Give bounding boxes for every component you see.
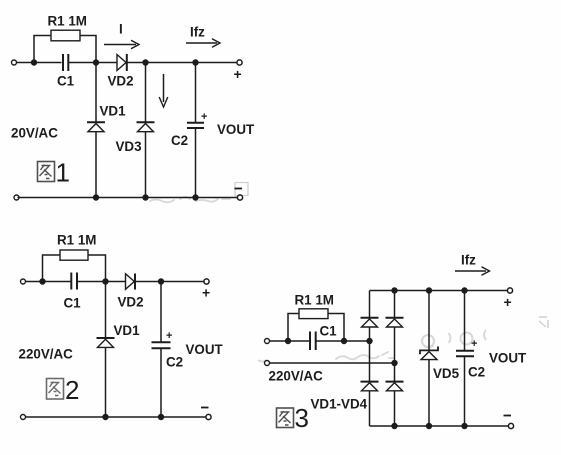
terminal: AC input top-left (circuit 1) — [12, 60, 17, 65]
svg-text:C1: C1 — [320, 324, 338, 339]
svg-text:C1: C1 — [64, 296, 82, 311]
node: R1/C1 left junction (circuit 2) — [39, 278, 45, 284]
wire: bridge right column middle — [394, 327, 396, 381]
wire: bridge right column upper — [394, 291, 396, 318]
svg-text:VOUT: VOUT — [489, 351, 527, 366]
current arrow Ifz (circuit 1) — [186, 39, 220, 48]
node: R1 right / VD1 branch junction (circuit 2) — [102, 278, 108, 284]
capacitor C2 (circuit 1) — [187, 123, 204, 128]
svg-text:VOUT: VOUT — [186, 342, 224, 357]
node: VD5 bottom junction — [426, 423, 432, 429]
current arrow I — [104, 40, 139, 49]
svg-text:C2: C2 — [166, 355, 183, 370]
resistor R1 (circuit 3) — [299, 309, 328, 319]
svg-text:Ifz: Ifz — [461, 253, 476, 268]
svg-text:VD1: VD1 — [100, 104, 127, 119]
figure label: 图2 — [47, 375, 80, 405]
svg-text:2: 2 — [65, 375, 79, 405]
wire: rail C1 to VD2 (circuit 2) — [77, 281, 126, 283]
svg-text:220V/AC: 220V/AC — [269, 369, 324, 384]
wire: R1 left lead (circuit 3) — [288, 314, 299, 342]
terminal: output + (circuit 3) — [507, 288, 512, 293]
capacitor C2 (circuit 3) — [456, 351, 474, 357]
node: C2 bottom junction (circuit 3) — [461, 423, 467, 429]
svg-text:C2: C2 — [468, 365, 485, 380]
node: bridge right column top junction — [391, 287, 397, 293]
wire: VD1 branch upper (circuit 2) — [105, 282, 107, 338]
wire: R1 left lead — [34, 36, 51, 63]
wire: VD1 branch lower — [95, 132, 97, 198]
svg-text:220V/AC: 220V/AC — [19, 347, 74, 362]
wire: C2 branch upper — [195, 63, 197, 123]
wire: top rail left segment (circuit 2) — [26, 281, 71, 283]
node: C2 top junction (circuit 3) — [461, 287, 467, 293]
node: C2 bottom junction — [192, 194, 198, 200]
diode VD1 (circuit 1) — [87, 122, 105, 131]
terminal: output + (circuit 2) — [204, 279, 209, 284]
svg-text:C2: C2 — [171, 133, 188, 148]
node: C2 bottom junction (circuit 2) — [158, 414, 164, 420]
node: bridge right column bottom junction — [391, 423, 397, 429]
svg-text:R1 1M: R1 1M — [57, 233, 96, 248]
svg-text:VD2: VD2 — [118, 295, 144, 310]
wire: C2 branch lower (circuit 3) — [464, 356, 466, 426]
diode VD4 (bridge bottom-right) — [386, 382, 404, 391]
resistor R1 — [51, 30, 80, 41]
svg-text:I: I — [119, 22, 123, 37]
node: VD3 branch junction — [142, 59, 148, 65]
current arrow Ifz (circuit 3) — [455, 267, 490, 276]
node: R1/C1 left junction (circuit 3) — [285, 338, 291, 344]
label: − polarity output (circuit 3) — [504, 415, 512, 417]
terminal: AC input lower (circuit 3) — [265, 361, 270, 366]
svg-text:+: + — [234, 66, 242, 82]
current arrow: downward through VD3 — [159, 74, 168, 107]
wire: bridge left column lower — [369, 391, 371, 426]
wire: rail VD2 to output terminal (circuit 2) — [135, 281, 204, 283]
node: VD1 bottom junction (circuit 2) — [102, 414, 108, 420]
wire: top rail left segment (terminal to C1) — [17, 62, 62, 64]
capacitor C2 (circuit 2) — [152, 342, 171, 348]
wire: bottom rail (circuit 3) — [370, 425, 509, 427]
zener diode VD5 — [420, 347, 438, 360]
diode VD3 (bridge bottom-left) — [361, 382, 379, 391]
wire: upper AC line to bridge left column — [316, 340, 370, 342]
wire: upper AC line left of C1 (circuit 3) — [270, 340, 310, 342]
figure label: 图1 — [38, 158, 70, 188]
diode VD2 (circuit 1) — [117, 54, 127, 71]
terminal: output − (circuit 2) — [206, 414, 211, 419]
wire: bridge left column upper — [369, 291, 371, 318]
svg-text:3: 3 — [295, 403, 309, 433]
svg-text:20V/AC: 20V/AC — [11, 126, 58, 141]
wire: top rail (circuit 3) — [370, 290, 508, 292]
wire: bridge left column middle — [369, 327, 371, 381]
svg-text:+: + — [202, 285, 210, 301]
svg-text:VD2: VD2 — [108, 74, 134, 89]
diode VD1 (bridge top-left) — [361, 318, 379, 327]
terminal: AC input upper (circuit 3) — [265, 339, 270, 344]
diode VD1 (circuit 2) — [97, 338, 115, 347]
wire: rail C1 to VD2 — [68, 62, 117, 64]
wire: R1 right lead (circuit 3) — [328, 314, 344, 342]
wire: R1 right lead (circuit 2) — [88, 255, 106, 282]
terminal: output − (circuit 3) — [508, 423, 513, 428]
capacitor C1 (circuit 3) — [310, 332, 316, 351]
terminal: AC input top-left (circuit 2) — [21, 279, 26, 284]
resistor R1 (circuit 2) — [60, 250, 88, 260]
node: bridge right column AC junction — [391, 360, 397, 366]
node: VD5 top junction — [426, 287, 432, 293]
svg-text:+: + — [504, 294, 512, 310]
figure label: 图3 — [277, 403, 309, 433]
wire: C2 branch lower — [195, 128, 197, 198]
wire: lower AC line to bridge right column — [270, 362, 395, 364]
terminal: output + (circuit 1) — [237, 60, 242, 65]
wire: bottom rail (circuit 1) — [18, 197, 238, 199]
wire: R1 left lead (circuit 2) — [43, 255, 61, 282]
svg-text:VOUT: VOUT — [217, 122, 255, 137]
svg-text:VD5: VD5 — [433, 366, 460, 381]
wire: R1 right lead — [80, 36, 96, 63]
diode VD3 — [137, 122, 155, 131]
svg-text:Ifz: Ifz — [190, 25, 205, 40]
node: VD3 bottom junction — [142, 194, 148, 200]
node: C2 branch junction — [192, 59, 198, 65]
terminal: AC input bottom-left (circuit 1) — [14, 195, 19, 200]
svg-text:VD1-VD4: VD1-VD4 — [311, 397, 368, 412]
wire: C2 branch lower (circuit 2) — [160, 348, 162, 417]
wire: VD5 branch lower — [428, 360, 430, 426]
node: C2 branch junction (circuit 2) — [158, 278, 164, 284]
wire: VD3 branch upper — [145, 63, 147, 123]
svg-text:+: + — [201, 111, 207, 123]
wire: bottom rail (circuit 2) — [26, 416, 207, 418]
node: bridge left column AC junction — [366, 338, 372, 344]
diode VD2 (circuit 2) — [126, 274, 136, 290]
svg-text:R1 1M: R1 1M — [295, 293, 334, 308]
label: − polarity output (circuit 2) — [201, 407, 209, 409]
svg-text:R1 1M: R1 1M — [48, 14, 87, 29]
wire: rail VD2 to output terminal — [127, 62, 237, 64]
wire: C2 branch upper (circuit 3) — [464, 291, 466, 351]
svg-text:C1: C1 — [57, 74, 75, 89]
wire: VD1 branch lower (circuit 2) — [105, 347, 107, 417]
node: junction of R1/C1 left — [31, 59, 37, 65]
wire: VD1 branch upper — [95, 63, 97, 123]
svg-text:+: + — [471, 338, 477, 350]
terminal: AC input bottom-left (circuit 2) — [21, 415, 26, 420]
node: junction R1 right / VD1 branch — [93, 59, 99, 65]
label: − polarity output (circuit 1) — [235, 188, 243, 190]
wire: VD5 branch upper — [428, 291, 430, 351]
wire: C2 branch upper (circuit 2) — [160, 282, 162, 343]
wire: bridge right column lower — [394, 391, 396, 426]
capacitor C1 (circuit 2) — [71, 273, 77, 290]
svg-text:1: 1 — [56, 158, 70, 188]
svg-text:VD1: VD1 — [114, 323, 141, 338]
terminal: output − (circuit 1) — [237, 195, 242, 200]
node: VD1 bottom junction — [93, 194, 99, 200]
svg-text:VD3: VD3 — [116, 139, 142, 154]
svg-text:+: + — [166, 330, 172, 342]
diode VD2 (bridge top-right) — [386, 318, 404, 327]
node: R1 right junction (circuit 3) — [341, 338, 347, 344]
wire: VD3 branch lower — [145, 132, 147, 198]
capacitor C1 (circuit 1) — [63, 54, 68, 71]
